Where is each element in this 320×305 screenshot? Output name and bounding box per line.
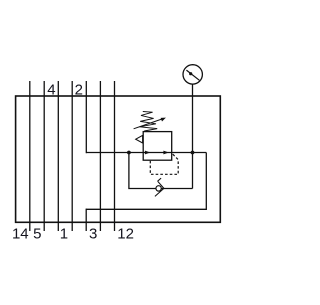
svg-text:2: 2: [75, 81, 83, 98]
svg-text:3: 3: [89, 225, 97, 242]
svg-text:14: 14: [12, 225, 29, 242]
svg-text:5: 5: [33, 225, 41, 242]
svg-text:1: 1: [60, 225, 68, 242]
svg-text:12: 12: [117, 225, 134, 242]
svg-text:4: 4: [47, 81, 55, 98]
